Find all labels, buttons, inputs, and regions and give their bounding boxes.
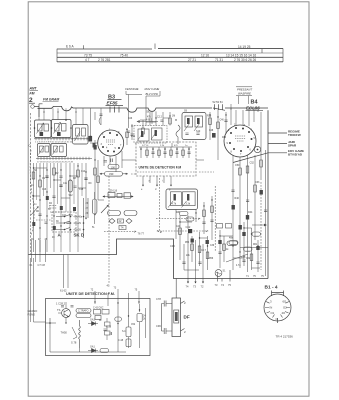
parts right of B3 — [127, 124, 132, 145]
label C pickup — [29, 144, 31, 148]
svg-text:4.7n: 4.7n — [236, 265, 241, 267]
tube B3 pin numbers — [101, 129, 123, 151]
det unit label C28.2 — [56, 302, 66, 306]
svg-text:S.78: S.78 — [71, 341, 77, 345]
trimmer arrow L7 — [53, 146, 59, 155]
svg-text:C96: C96 — [156, 324, 161, 328]
IF can B4 — [182, 113, 206, 140]
svg-text:C52: C52 — [250, 162, 255, 165]
right col exit arrow — [240, 224, 268, 247]
volume arrow — [101, 205, 108, 213]
labels 76 77 — [138, 232, 145, 236]
small parts near top mid — [127, 120, 146, 132]
DF stub marks — [181, 301, 185, 331]
coil L2 — [44, 124, 49, 131]
DF feed wire — [162, 279, 177, 332]
svg-text:C18: C18 — [79, 189, 84, 191]
left bottom exit wires — [32, 240, 46, 262]
svg-text:C7 C8: C7 C8 — [38, 263, 46, 267]
svg-text:R30: R30 — [207, 116, 212, 118]
svg-text:C14: C14 — [81, 171, 86, 173]
bottom mid tiny labels — [176, 226, 258, 267]
svg-text:TRIO/FW: TRIO/FW — [288, 133, 301, 137]
tuner can top stubs — [39, 108, 83, 125]
det transistor TS1 — [62, 309, 71, 318]
arrow 4B1 — [137, 121, 158, 123]
parts between IF and B4 — [210, 110, 226, 160]
B1-4 label — [265, 285, 278, 291]
right col dashed vertical — [260, 182, 262, 270]
tall stadium pot — [92, 199, 97, 214]
left grid mid horiz dashes — [36, 212, 64, 220]
node dots tuner top — [34, 119, 72, 129]
svg-text:1M: 1M — [172, 116, 175, 118]
switch row numbers upper — [35, 142, 73, 144]
svg-text:GRAMO: GRAMO — [28, 309, 38, 313]
coil L7 — [54, 146, 58, 152]
resistor oval R11 — [105, 172, 123, 177]
bottom mid terminals wires — [188, 240, 203, 283]
coil L4 — [62, 124, 67, 132]
bottom mid horiz links — [180, 222, 260, 270]
gramo label — [28, 309, 38, 317]
label FM GRAM italic — [43, 97, 59, 101]
svg-text:C62: C62 — [246, 258, 251, 260]
antenna terminal 2 — [29, 97, 33, 104]
svg-text:OA1: OA1 — [90, 319, 95, 322]
coil L6 — [45, 146, 49, 152]
extra parts under B3 left — [98, 160, 104, 200]
det boxes right edge — [137, 314, 142, 322]
small box pair row — [217, 224, 223, 229]
det stadium bottom — [100, 349, 109, 353]
svg-text:WASPIRE: WASPIRE — [238, 92, 251, 96]
svg-text:61 62: 61 62 — [60, 289, 67, 293]
small pair caps under B3 — [104, 159, 113, 163]
FM det coil dashed can — [134, 126, 167, 144]
component group G1 — [103, 196, 133, 198]
S curl — [176, 125, 180, 144]
svg-text:FM: FM — [30, 92, 35, 96]
ratio det cores — [174, 194, 176, 201]
svg-text:40a 40a: 40a 40a — [74, 216, 83, 219]
det vertical wires right — [118, 304, 146, 348]
TS1 leads — [58, 302, 66, 323]
wire antenna to block — [34, 104, 42, 117]
capacitor C6 — [84, 178, 87, 180]
svg-text:3.3k: 3.3k — [186, 203, 191, 206]
tube B4 pins — [229, 127, 253, 152]
IF can S4 — [51, 144, 67, 157]
det diode D2 — [88, 349, 98, 353]
inset tiny labels — [142, 145, 188, 147]
svg-text:C16: C16 — [42, 189, 47, 191]
svg-text:C: C — [29, 144, 31, 148]
svg-text:76 77: 76 77 — [138, 232, 145, 236]
IF B4 coil B — [195, 116, 203, 127]
svg-text:TR 4 217536: TR 4 217536 — [276, 335, 294, 339]
stadium under can — [180, 212, 189, 216]
svg-text:UNITE DE DETECTION F.M: UNITE DE DETECTION F.M — [139, 166, 182, 170]
svg-text:E 6 A: E 6 A — [66, 45, 74, 49]
stadium pair P2 — [124, 211, 137, 216]
capacitor C3 — [45, 176, 48, 178]
B1-4 socket pins — [272, 291, 284, 324]
small can right of tuner — [73, 125, 89, 145]
dial scale line 4 — [57, 61, 283, 63]
det extra parts — [105, 322, 111, 326]
below-inset terminals — [143, 176, 171, 186]
pot circle right — [254, 146, 260, 152]
inset row of parts — [141, 147, 189, 158]
det stadium R b — [76, 314, 91, 318]
extra left labels — [31, 185, 84, 223]
main block bottom staircase — [28, 239, 268, 279]
SKD contact rows — [64, 216, 85, 231]
tube B3 label — [107, 95, 118, 106]
terminal ticks right group — [218, 270, 231, 282]
tube B4 envelope — [224, 125, 256, 157]
svg-text:C44: C44 — [176, 226, 181, 228]
tube B3 pins — [102, 132, 120, 153]
det bottom bus — [50, 328, 126, 352]
wires right of tuner — [91, 108, 102, 136]
svg-text:S.TY.4: S.TY.4 — [142, 145, 149, 147]
svg-text:R12: R12 — [131, 136, 136, 138]
B4 area tiny labels — [207, 116, 227, 140]
main block left edge — [30, 113, 32, 255]
svg-text:ANT: ANT — [29, 87, 38, 91]
det inductor vertical — [79, 320, 81, 348]
antenna label ANT FM — [29, 87, 38, 96]
FM det coil A — [138, 129, 149, 141]
labels right bottom — [246, 275, 264, 278]
switch row SK ticks lower — [36, 157, 92, 159]
label 45 — [107, 284, 110, 288]
right column verticals — [233, 112, 266, 276]
stadium bottom mid — [227, 241, 238, 245]
det top terminals — [95, 289, 139, 308]
bottom mid diagonal — [226, 254, 248, 262]
dashed row 218.6 — [156, 218, 200, 220]
box 22 between diamonds — [118, 219, 124, 223]
DF capacitors — [162, 301, 167, 335]
coil L1 — [38, 124, 43, 131]
right col tiny labels — [229, 162, 260, 260]
left grid wire tails — [54, 228, 78, 252]
svg-text:12 16: 12 16 — [201, 54, 209, 58]
tube B3 internal electrodes — [106, 140, 115, 145]
det stadium B7k — [115, 317, 122, 321]
wires from inset top to B3 — [122, 159, 204, 161]
wire grid left verticals — [34, 140, 96, 252]
det stadium R a — [76, 309, 91, 313]
left long verticals to det box — [31, 255, 69, 323]
svg-text:71 31: 71 31 — [215, 58, 223, 62]
tiny labels top mid — [128, 112, 150, 139]
svg-text:4 B 1: 4 B 1 — [146, 118, 153, 122]
bracket C left — [50, 205, 57, 209]
FM det cores — [141, 131, 143, 137]
svg-text:225-116: 225-116 — [109, 190, 118, 193]
svg-text:SPAR: SPAR — [288, 143, 297, 147]
bottom mid blobs — [191, 239, 194, 243]
tube B4 label — [246, 100, 260, 111]
resistor R2 — [39, 180, 42, 187]
svg-text:R40: R40 — [235, 197, 240, 200]
extra small parts left grid — [44, 176, 76, 223]
resistor R1 — [32, 172, 35, 179]
left grid bottom tiny labels — [31, 227, 95, 241]
tube B3 envelope — [98, 130, 124, 156]
ratio det labels — [172, 203, 191, 214]
dashed line row 230 — [104, 231, 136, 233]
det unit inside: entry wire — [46, 318, 57, 328]
svg-text:17 18 19 20 21 22 23 24 25 26: 17 18 19 20 21 22 23 24 25 26 27 28 — [37, 161, 74, 163]
bottom mid resistors — [179, 228, 182, 235]
B3 grid cap wire — [90, 112, 101, 143]
svg-text:O2: O2 — [283, 306, 287, 310]
R10 R11 tiny text — [109, 165, 115, 176]
svg-text:DF: DF — [184, 315, 190, 320]
mid components cluster — [203, 210, 206, 217]
det box C13 — [126, 339, 131, 347]
tube B4 electrodes — [235, 136, 246, 141]
svg-text:R33: R33 — [222, 137, 227, 139]
right leader wires — [233, 133, 287, 163]
blob C7 — [89, 136, 93, 142]
stadium 352 — [186, 217, 194, 221]
svg-text:R61: R61 — [253, 244, 258, 246]
svg-text:C50: C50 — [235, 164, 240, 167]
svg-text:C.TRAFO: C.TRAFO — [78, 310, 89, 313]
dashed link row 172 — [131, 172, 214, 174]
svg-text:SK D: SK D — [74, 233, 85, 238]
detection inset dashed box — [136, 142, 196, 176]
dial scale line 3 — [57, 56, 283, 58]
dial scale end ticks — [57, 44, 283, 63]
TR number — [276, 335, 294, 339]
bottom detection unit title — [66, 292, 115, 296]
label C36 — [170, 244, 175, 248]
svg-text:C63: C63 — [255, 181, 260, 184]
det labels top wires — [91, 287, 138, 292]
horizontal links left grid — [34, 168, 87, 198]
svg-text:C21: C21 — [62, 215, 67, 217]
trimmer arrow L3 — [54, 123, 61, 134]
P diamonds — [109, 219, 132, 224]
FM det coil B — [152, 128, 163, 140]
svg-text:41a 29: 41a 29 — [74, 222, 82, 225]
labels under inset — [141, 180, 171, 192]
svg-text:FONO: FONO — [28, 313, 36, 317]
stadium pair P1 — [108, 211, 121, 216]
DF label — [184, 315, 190, 320]
svg-text:GA1: GA1 — [90, 346, 95, 349]
capacitor C5 — [59, 185, 62, 187]
svg-text:C78: C78 — [156, 297, 161, 301]
svg-text:CENTAME: CENTAME — [125, 87, 139, 91]
det diode D1 — [88, 322, 98, 326]
right col top wires — [231, 108, 254, 126]
svg-text:TH50: TH50 — [61, 331, 68, 335]
svg-text:C.48: C.48 — [118, 339, 124, 342]
resistor oval R10 — [108, 165, 119, 169]
svg-text:C46: C46 — [220, 120, 225, 122]
capacitor C1 blob — [40, 132, 44, 136]
svg-text:1 C28.2: 1 C28.2 — [56, 302, 66, 306]
blob C8 — [94, 145, 97, 150]
det caps top — [61, 306, 74, 307]
svg-text:14 19 25: 14 19 25 — [238, 45, 251, 49]
tube B4 pin numbers — [227, 124, 256, 157]
mid vertical dashed — [214, 186, 216, 252]
switch SKD dashed box — [52, 212, 76, 232]
FM tuner can S2 — [52, 120, 72, 138]
IF B4 lower parts — [185, 133, 199, 134]
svg-text:42a 26: 42a 26 — [74, 229, 82, 232]
svg-text:C4.7: C4.7 — [201, 250, 207, 252]
svg-text:C48: C48 — [209, 130, 214, 132]
svg-text:48a: 48a — [229, 237, 234, 240]
arrowheads on left wires — [85, 136, 96, 220]
dial scale line 2 — [57, 52, 283, 54]
svg-text:C26: C26 — [128, 118, 133, 120]
main block right edge — [267, 110, 269, 278]
svg-text:C36: C36 — [170, 244, 175, 248]
svg-text:4 7: 4 7 — [85, 58, 90, 62]
svg-text:IN: IN — [270, 306, 273, 310]
svg-text:B1 - 4: B1 - 4 — [265, 285, 278, 291]
main block top boundary — [38, 106, 269, 112]
svg-text:O1: O1 — [271, 311, 275, 315]
svg-text:R56: R56 — [209, 258, 214, 260]
ratio det arrows — [168, 201, 187, 208]
IF B4 coil A — [185, 116, 193, 127]
trimmer arrow L5 — [39, 146, 45, 155]
label SK D bold — [74, 233, 85, 238]
coil L5 — [40, 146, 44, 152]
curved dashed AVC line — [30, 150, 34, 236]
ratio detector can — [166, 189, 198, 210]
ratio det coil A — [171, 192, 182, 206]
right col stadium ovals — [229, 241, 238, 245]
det mid caps — [104, 329, 112, 335]
switch row SK ticks upper — [34, 138, 92, 140]
bottom mid dots — [179, 221, 258, 252]
IF B4 cores — [187, 118, 190, 124]
left grid extra verticals — [37, 163, 83, 212]
svg-text:UNITE DE DETECTION F.M.: UNITE DE DETECTION F.M. — [66, 292, 115, 296]
svg-text:C2.2: C2.2 — [157, 117, 163, 119]
trimmer arrow L1 — [37, 123, 44, 134]
det zigzag pointer — [72, 327, 77, 339]
dashed row 231 — [157, 230, 208, 232]
svg-text:S12: S12 — [69, 195, 74, 197]
bottom mid caps — [182, 252, 259, 263]
svg-text:27 21: 27 21 — [188, 58, 196, 62]
mid verticals under can — [176, 196, 212, 252]
svg-text:EF85: EF85 — [107, 101, 118, 106]
bottom mid verticals extra — [180, 215, 258, 272]
svg-text:2 76 281: 2 76 281 — [98, 58, 111, 62]
top boundary castellation ticks 52 53 54 — [213, 104, 225, 110]
extra blobs left grid — [46, 196, 49, 200]
coil L3 — [55, 124, 60, 132]
bottom detection unit box — [46, 299, 151, 356]
dial scale tiny numbers row1 — [66, 45, 256, 62]
electrolytic C4 — [68, 180, 72, 192]
resistor R3 — [53, 168, 56, 175]
svg-text:BLV D'PD: BLV D'PD — [146, 92, 158, 96]
coil DR circle — [215, 270, 222, 277]
label A bold — [58, 233, 62, 238]
svg-text:75 40: 75 40 — [120, 54, 128, 58]
cap C270 — [100, 114, 103, 115]
inset small resistors — [146, 150, 149, 156]
svg-text:2 76 30 6 26 26: 2 76 30 6 26 26 — [234, 58, 256, 62]
svg-text:C.42 OSC: C.42 OSC — [93, 308, 104, 310]
small can coil — [76, 128, 80, 136]
ratio det coil B — [183, 192, 196, 206]
FM tuner can S1 — [35, 120, 52, 138]
switch row numbers lower — [37, 161, 74, 163]
svg-text:330: 330 — [109, 172, 114, 176]
mid strip extra parts — [146, 111, 172, 147]
R11 arrows — [100, 173, 128, 175]
SKD row labels — [74, 202, 89, 232]
svg-text:R44: R44 — [248, 211, 253, 214]
label PRESSANT WASPIRE boxed — [237, 88, 252, 96]
svg-text:C.18: C.18 — [106, 326, 112, 329]
DF antenna outer — [172, 298, 181, 337]
capacitor C2 blob — [57, 132, 61, 136]
B4 top wires — [231, 104, 258, 126]
mid strip horiz links — [146, 118, 170, 122]
extra dots left grid — [39, 215, 70, 230]
arrow pot — [31, 207, 38, 215]
svg-text:52 53 54: 52 53 54 — [213, 100, 224, 104]
svg-text:TS: TS — [57, 308, 61, 312]
inset caps — [151, 152, 190, 153]
wire grid dots — [33, 159, 96, 200]
B1-4 socket — [264, 294, 291, 321]
svg-text:MAV CAME: MAV CAME — [145, 87, 160, 91]
dial scale line 1 — [57, 48, 283, 50]
svg-text:BTV/D'AD: BTV/D'AD — [288, 153, 303, 157]
det cluster boxes — [94, 310, 101, 315]
C42 blob on dashed row — [188, 229, 192, 233]
vertical dashed mid — [109, 176, 162, 283]
detection inset label — [139, 166, 182, 170]
svg-text:C39: C39 — [210, 245, 215, 247]
main top: B3 screen wires — [129, 108, 153, 128]
svg-text:R52: R52 — [185, 242, 190, 244]
wires B3 down — [104, 151, 122, 172]
right leader labels — [288, 129, 304, 156]
svg-text:S10: S10 — [196, 130, 201, 133]
right col components — [239, 168, 242, 175]
IF can S3 — [38, 144, 51, 157]
svg-text:100: 100 — [111, 165, 116, 169]
svg-text:4.7k: 4.7k — [172, 203, 177, 206]
resistor R4 — [77, 170, 80, 177]
IF B4 arrows — [184, 124, 200, 132]
svg-text:FM GRAM: FM GRAM — [43, 97, 59, 101]
DF antenna inner — [174, 310, 179, 323]
label CENTAME MAV CAME — [125, 87, 159, 96]
svg-text:C52: C52 — [131, 324, 136, 326]
